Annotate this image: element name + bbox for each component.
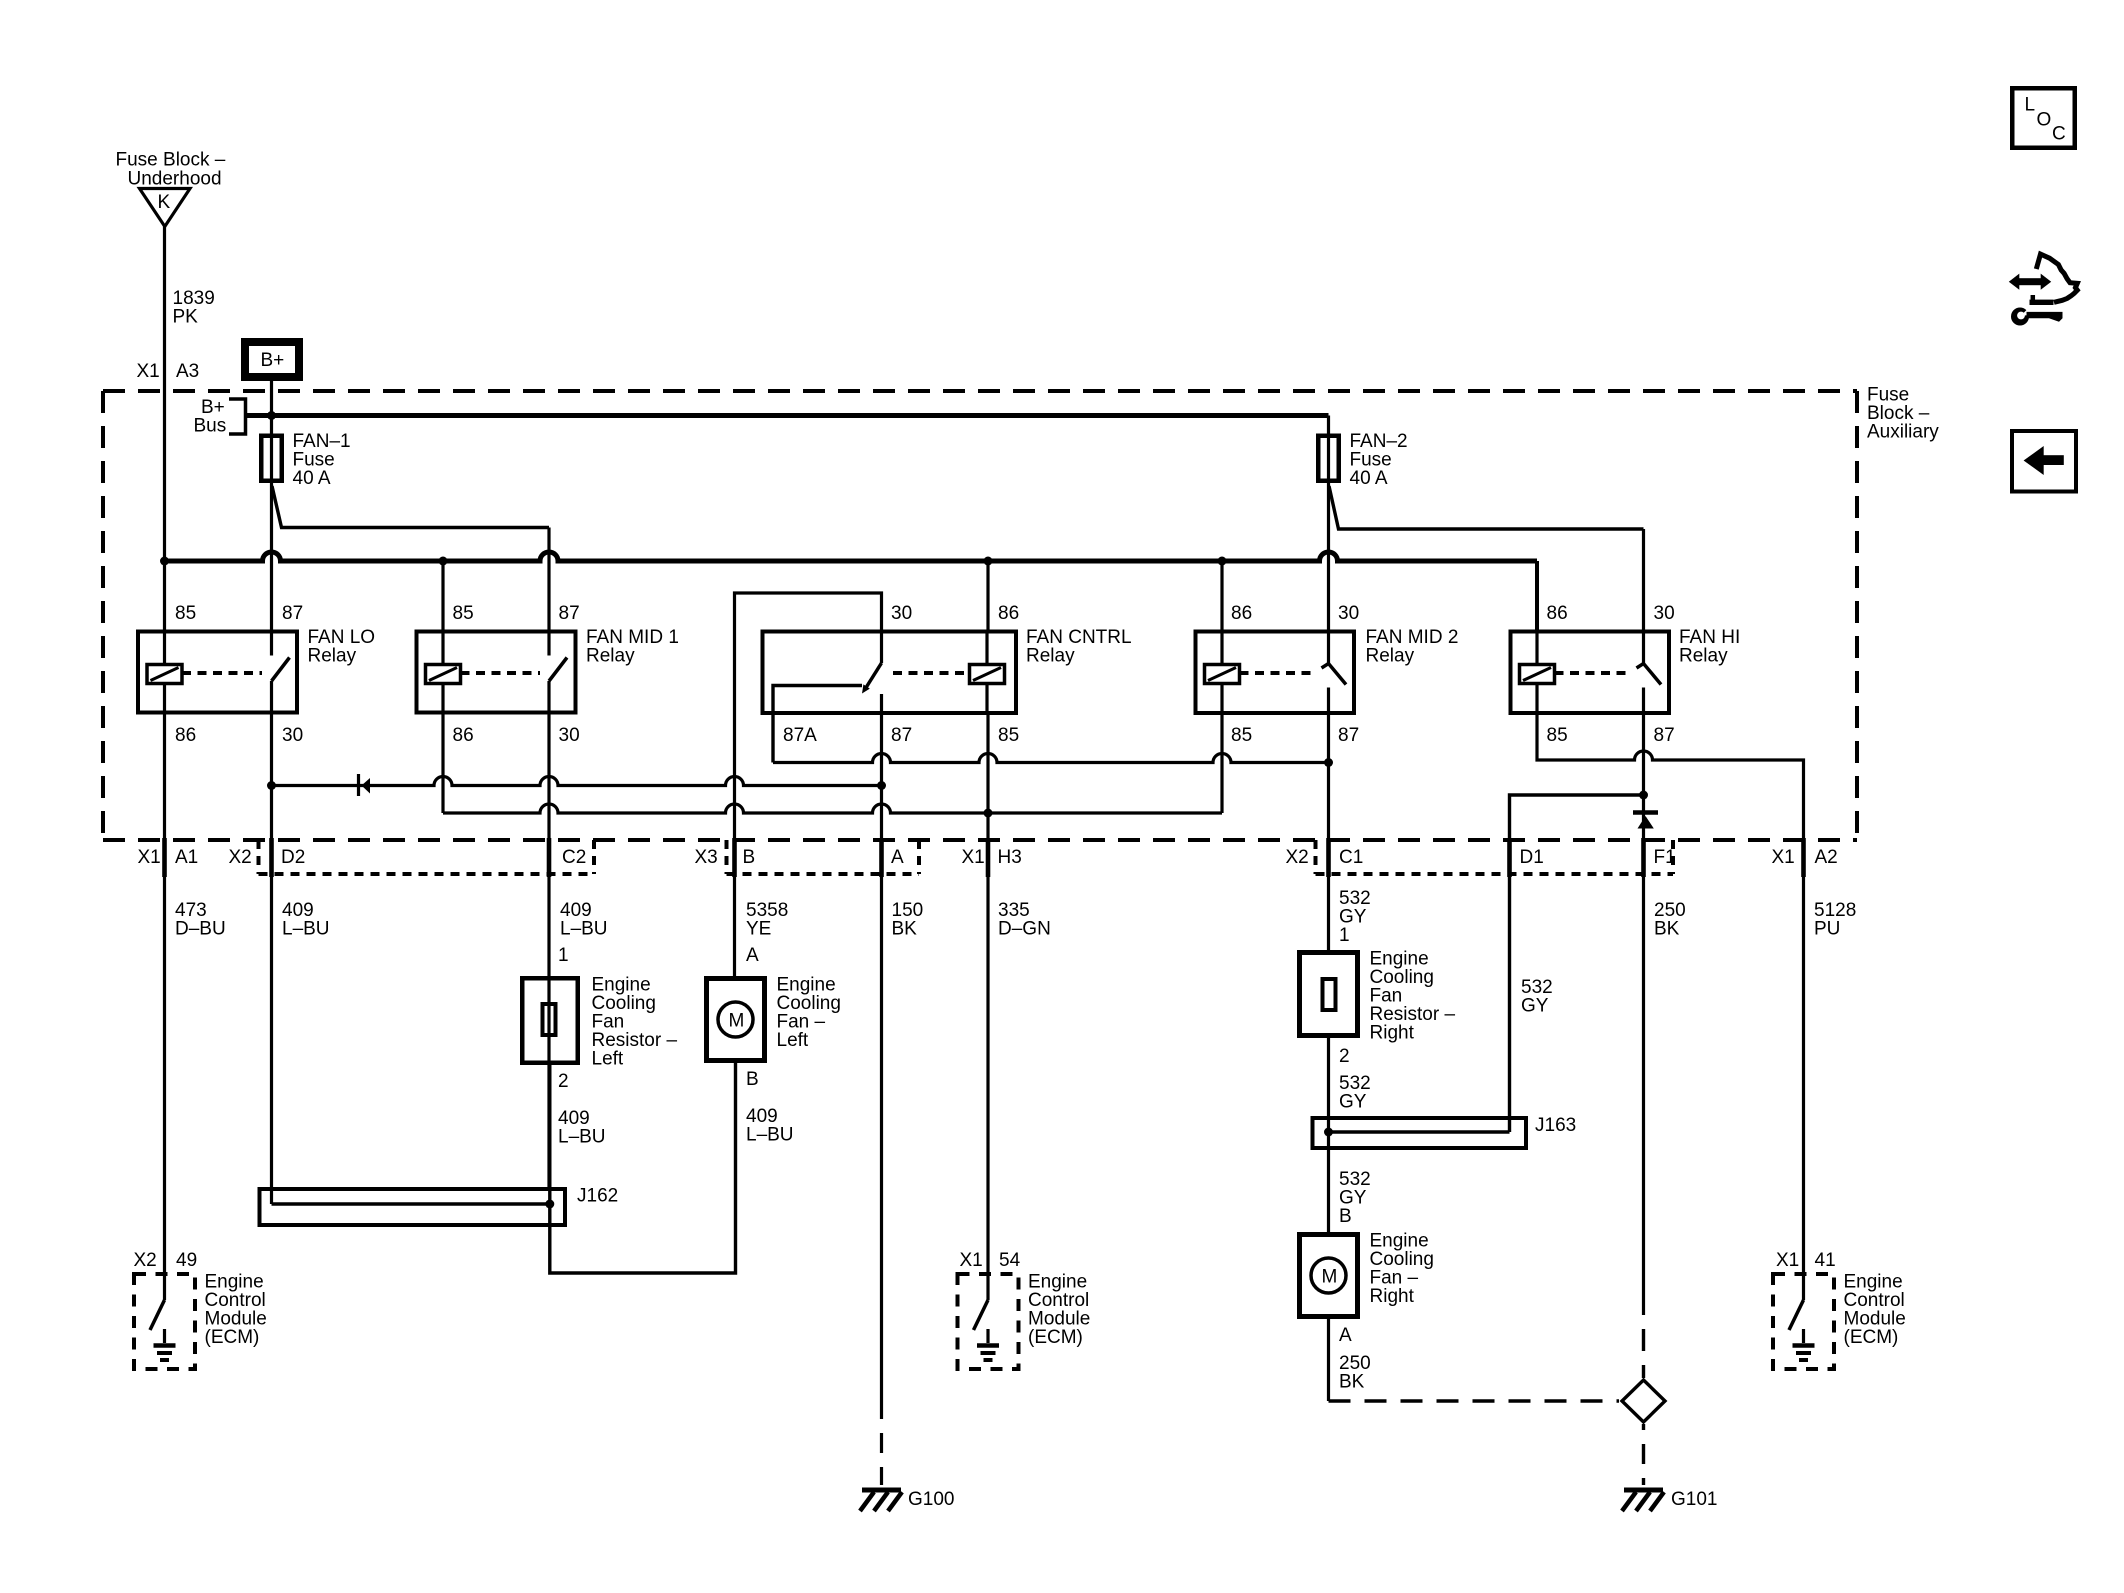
wire FAN HI 87 down [1642,715,1645,1316]
icon LOC box [2012,88,2075,148]
svg-text:H3: H3 [998,847,1022,868]
relay FAN MID 1 coil [441,630,444,665]
wire FAN MID 2 86 tap [1220,561,1223,630]
relay FAN LO coil [163,630,166,665]
svg-text:Relay: Relay [586,646,635,667]
svg-text:86: 86 [453,725,474,746]
svg-text:G100: G100 [908,1489,954,1510]
svg-text:85: 85 [175,603,196,624]
svg-text:30: 30 [559,725,580,746]
svg-text:30: 30 [891,603,912,624]
svg-text:X1: X1 [960,1250,983,1271]
svg-text:Fuse Block –: Fuse Block – [116,150,226,171]
svg-text:PU: PU [1814,919,1840,940]
engine cooling fan right motor [1300,1235,1358,1317]
engine cooling fan resistor right [1300,953,1358,1036]
relay FAN MID 1 switch [547,630,550,656]
svg-text:A1: A1 [175,847,198,868]
svg-text:2: 2 [1339,1046,1350,1067]
engine cooling fan left motor [707,979,765,1061]
connector sub-box X2 (C1-F1) [1314,840,1318,874]
wire FAN CNTRL 30 loop to fan left feed [735,593,882,976]
svg-text:87: 87 [1654,725,1675,746]
relay FAN LO switch [270,630,273,656]
svg-text:L–BU: L–BU [560,919,608,940]
svg-text:A: A [1339,1325,1352,1346]
svg-text:C2: C2 [562,847,586,868]
svg-text:D–BU: D–BU [175,919,226,940]
svg-text:B: B [1339,1206,1352,1227]
svg-text:Left: Left [777,1030,809,1051]
svg-text:B: B [743,847,756,868]
switch arrowhead [862,684,870,693]
svg-text:X2: X2 [1286,847,1309,868]
wire FAN MID 1 86 / FAN CNTRL 85 / FAN MID 2 85 common [443,804,1222,813]
svg-text:D2: D2 [281,847,305,868]
svg-text:X1: X1 [138,847,161,868]
relay FAN CNTRL coil [985,630,988,665]
svg-text:85: 85 [1547,725,1568,746]
wire B+ box to bus [270,381,273,416]
svg-text:O: O [2037,110,2052,131]
svg-text:1: 1 [558,945,569,966]
relay FAN MID 2 switch [1327,630,1330,664]
svg-text:Left: Left [592,1049,624,1070]
off-page connector triangle K [140,189,191,227]
svg-text:M: M [729,1011,745,1032]
relay FAN MID 2 coil [1220,630,1223,665]
svg-text:40 A: 40 A [1350,468,1388,489]
wire motor left B to splice J162 [550,1063,736,1273]
diode (cathode toward FAN LO 30) [357,774,360,796]
wire FAN HI 87 branch to D1 532 GY [1510,795,1644,1132]
icon car outline [2036,254,2077,302]
relay FAN LO [138,632,297,713]
main feed line from K wire to FAN HI 86 [165,552,1538,561]
relay FAN MID 1 [417,632,576,713]
wire FAN MID 1 85 tap [441,561,444,630]
wire FAN LO 30 down to splice J162 [270,715,273,1205]
svg-text:A2: A2 [1815,847,1838,868]
relay FAN CNTRL switch [880,630,883,664]
svg-text:L–BU: L–BU [558,1127,606,1148]
wire FAN HI 85 to ECM X1 A2 [1537,715,1804,1275]
svg-text:54: 54 [999,1250,1021,1271]
svg-text:Auxiliary: Auxiliary [1867,422,1939,443]
svg-text:(ECM): (ECM) [1028,1327,1083,1348]
svg-text:Bus: Bus [194,416,227,437]
svg-text:X1: X1 [962,847,985,868]
svg-text:40 A: 40 A [293,468,331,489]
svg-text:BK: BK [1654,919,1680,940]
engine cooling fan resistor left [522,978,578,1063]
svg-text:J163: J163 [1535,1115,1576,1136]
wire FAN-1 fuse to FAN MID 1 87 [272,486,549,528]
svg-text:X2: X2 [229,847,252,868]
wire motor right A to ground junction [1327,1319,1330,1401]
svg-text:30: 30 [1338,603,1359,624]
connector sub-box X3 (B-A) [725,840,729,874]
svg-text:86: 86 [998,603,1019,624]
svg-text:PK: PK [173,307,199,328]
wire 87A inside relay [773,686,862,763]
splice J162 [260,1189,566,1225]
svg-text:J162: J162 [577,1186,618,1207]
svg-text:41: 41 [1815,1250,1836,1271]
diode to ground (F1) [1633,810,1658,815]
ground G101 [1624,1488,1663,1493]
svg-text:GY: GY [1521,996,1549,1017]
svg-text:B+: B+ [261,350,285,371]
svg-text:GY: GY [1339,1092,1367,1113]
junction at FAN-1 fuse tap [267,411,276,420]
wire FAN MID 1 86 down [441,715,444,814]
wire bus to FAN LO 87 through fuse [270,416,273,630]
fuse FAN-2 40A [1318,436,1339,481]
svg-text:X1: X1 [1772,847,1795,868]
wire FAN LO 86 to ECM [163,715,166,1275]
connector sub-box X2 (D2-C2) [257,840,261,874]
relay FAN HI coil [1535,630,1538,665]
svg-text:Underhood: Underhood [128,169,222,190]
wire FAN MID 1 30 down to resistor left [547,715,550,1189]
svg-text:87: 87 [559,603,580,624]
svg-text:D–GN: D–GN [998,919,1051,940]
wire J163 to motor right [1327,1038,1330,1232]
wire bus drop to FAN-2 fuse and FAN MID 2 30 [1327,416,1330,630]
relay FAN CNTRL [763,632,1017,714]
svg-text:49: 49 [176,1250,197,1271]
wire FAN-2 fuse to FAN HI 30 [1329,486,1644,529]
wire FAN CNTRL 87 down to ground G100 [880,715,883,1420]
connector pin segments [162,838,167,877]
heavy B+ bus line [246,413,1329,418]
svg-text:B: B [746,1069,759,1090]
svg-text:F1: F1 [1654,847,1676,868]
svg-text:85: 85 [998,725,1019,746]
wire 1839 PK from fuse block underhood [163,227,166,562]
svg-text:86: 86 [1231,603,1252,624]
wire FAN MID 2 87 down to resistor right [1327,715,1330,951]
svg-text:BK: BK [892,919,918,940]
ground splice diamond [1642,1315,1645,1378]
relay FAN HI switch [1642,630,1645,664]
fuse FAN-1 40A [261,436,282,481]
svg-text:X2: X2 [134,1250,157,1271]
svg-text:86: 86 [1547,603,1568,624]
svg-text:1: 1 [1339,925,1350,946]
svg-text:L: L [2025,95,2036,116]
svg-text:(ECM): (ECM) [1844,1327,1899,1348]
svg-text:K: K [158,192,171,213]
icon vehicle dimensions with wrench [2024,446,2044,475]
svg-text:Right: Right [1370,1023,1415,1044]
svg-text:Relay: Relay [1026,646,1075,667]
svg-text:87A: 87A [783,725,817,746]
svg-text:30: 30 [1654,603,1675,624]
wire 87A to FAN MID 2 87 [773,754,1329,763]
junction dots on main feed [160,557,169,566]
svg-text:Relay: Relay [308,646,357,667]
icon double arrow [2009,274,2020,290]
icon left arrow box [2012,431,2076,492]
svg-text:86: 86 [175,725,196,746]
svg-text:2: 2 [558,1071,569,1092]
svg-text:30: 30 [282,725,303,746]
svg-text:A3: A3 [176,361,199,382]
icon wrench [2011,308,2029,326]
wire FAN CNTRL 86 tap [986,561,989,630]
svg-text:87: 87 [1338,725,1359,746]
svg-text:87: 87 [891,725,912,746]
svg-text:X1: X1 [137,361,160,382]
wire FAN CNTRL 85 down to ECM [986,715,989,1275]
svg-text:X3: X3 [695,847,718,868]
wire FAN LO 30 to FAN CNTRL 87 with diode [272,777,882,786]
ground G100 [862,1488,901,1493]
wire 150 BK to ground G100 [880,1419,883,1485]
svg-text:Right: Right [1370,1286,1415,1307]
wire FAN MID 2 85 down [1220,715,1223,814]
svg-text:X1: X1 [1776,1250,1799,1271]
power feed B+ box [245,342,299,377]
svg-text:85: 85 [453,603,474,624]
relay FAN HI [1511,632,1670,714]
svg-text:BK: BK [1339,1372,1365,1393]
splice J163 [1313,1118,1527,1148]
svg-text:A: A [746,945,759,966]
svg-text:YE: YE [746,919,771,940]
svg-text:M: M [1322,1267,1338,1288]
svg-text:Relay: Relay [1679,646,1728,667]
svg-text:D1: D1 [1520,847,1544,868]
svg-text:85: 85 [1231,725,1252,746]
wire FAN LO 85 tap [163,561,166,630]
svg-text:C1: C1 [1339,847,1363,868]
svg-text:L–BU: L–BU [746,1125,794,1146]
fuse block auxiliary dashed outline [103,389,1857,393]
svg-text:G101: G101 [1671,1489,1717,1510]
relay FAN MID 2 [1196,632,1355,714]
svg-text:A: A [891,847,904,868]
svg-text:C: C [2052,124,2066,145]
svg-text:(ECM): (ECM) [205,1327,260,1348]
svg-text:87: 87 [282,603,303,624]
svg-text:Relay: Relay [1366,646,1415,667]
svg-text:L–BU: L–BU [282,919,330,940]
